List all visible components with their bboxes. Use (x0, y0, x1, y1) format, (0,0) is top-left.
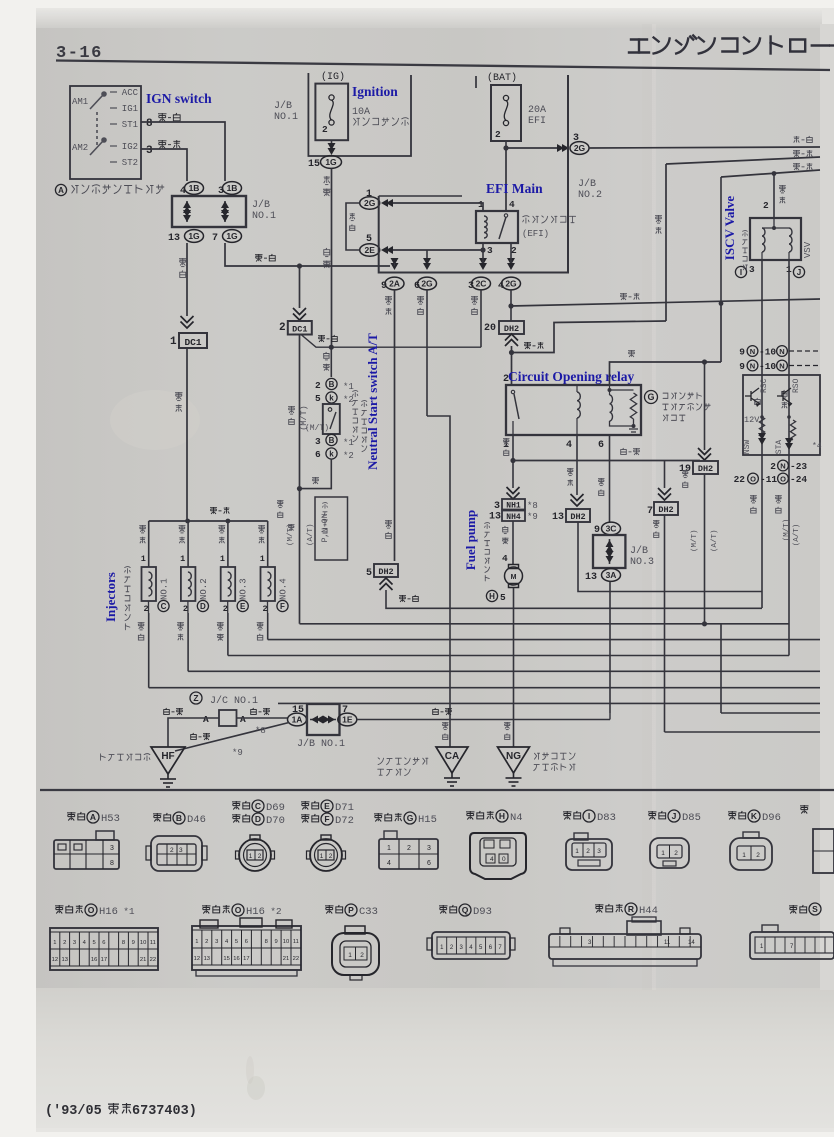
svg-text:5: 5 (92, 940, 95, 946)
svg-text:B: B (329, 380, 335, 389)
svg-text:2G: 2G (364, 198, 376, 208)
svg-text:3: 3 (597, 848, 601, 855)
arrow into DC1 pin1 (181, 316, 194, 328)
connector J D85 (648, 811, 657, 820)
svg-text:NO.1: NO.1 (252, 211, 276, 222)
svg-text:2: 2 (329, 853, 333, 860)
connector partial right edge row1 (800, 805, 809, 814)
svg-text:(IG): (IG) (321, 71, 345, 83)
svg-text:J/B: J/B (252, 199, 270, 211)
svg-text:NSW: NSW (743, 440, 752, 455)
connector 2C-3 (472, 277, 491, 290)
connector P C33 (325, 905, 334, 914)
CO relay pin1 down (512, 435, 514, 461)
connector DH2-19 (693, 461, 718, 474)
svg-text:IGN switch: IGN switch (146, 91, 212, 106)
svg-text:3: 3 (179, 847, 183, 854)
wire HF to block A (168, 718, 219, 747)
arrow into 2A-9 (391, 258, 399, 270)
wire injector 3 down (227, 613, 229, 656)
svg-text:2: 2 (258, 853, 262, 860)
svg-text:*2: *2 (343, 395, 354, 405)
connector E/F round (307, 835, 346, 871)
svg-text:1: 1 (180, 554, 185, 564)
arrow into 2C-3 (479, 258, 487, 270)
NSW bottom wire black (300, 459, 332, 489)
svg-text:1E: 1E (342, 715, 353, 725)
svg-text:P,N-ON: P,N-ON (321, 513, 330, 542)
svg-text:-11: -11 (760, 474, 777, 485)
connector R H44 (595, 904, 604, 913)
wire to DC1 pin2 (299, 266, 301, 308)
svg-text:HF: HF (161, 751, 174, 762)
connector H id (486, 590, 497, 601)
svg-text:2E: 2E (364, 245, 375, 255)
svg-text:11: 11 (150, 940, 156, 946)
ground NG luggage room (498, 747, 530, 773)
junction black-red line (508, 303, 513, 308)
svg-text:(M/T): (M/T) (783, 519, 791, 542)
svg-text:5: 5 (235, 939, 238, 945)
J/B No.3 box (593, 535, 625, 568)
wire DC1-2 long down black-white M/T (299, 335, 301, 624)
svg-text:13: 13 (489, 512, 501, 523)
svg-text:B: B (329, 436, 335, 445)
wire to injector 2 (187, 521, 189, 567)
neutral start switch M/T (323, 404, 340, 434)
svg-text:*1: *1 (123, 906, 135, 917)
svg-text:1: 1 (195, 939, 198, 945)
svg-text:N: N (780, 461, 785, 470)
svg-text:A: A (240, 714, 246, 725)
svg-text:1: 1 (575, 848, 579, 855)
connector A H53 (67, 812, 76, 821)
wire to injector 4 (267, 521, 269, 567)
connector 2G-4 (502, 277, 521, 290)
wire red-white to right (589, 147, 821, 148)
svg-text:R: R (628, 904, 634, 914)
connector DH2-7 (654, 502, 678, 515)
svg-text:DH2: DH2 (698, 464, 713, 474)
svg-text:N: N (779, 347, 784, 356)
svg-text:13: 13 (61, 957, 67, 963)
svg-text:N: N (750, 361, 755, 370)
svg-text:H16: H16 (99, 906, 118, 918)
svg-text:(EFI): (EFI) (522, 229, 549, 239)
connector 1G left (185, 230, 204, 243)
svg-text:12: 12 (194, 956, 200, 962)
separator line (40, 789, 834, 791)
svg-text:F: F (280, 602, 285, 611)
J/B No.2 bracket (379, 75, 568, 273)
svg-text:2: 2 (360, 952, 364, 959)
injector No.3 (221, 567, 236, 601)
connector O H16 *1 (55, 905, 64, 914)
wire bundle 5 injector2 (188, 670, 820, 672)
svg-text:ST1: ST1 (122, 120, 138, 130)
shift position P,N-ON box (315, 497, 348, 560)
svg-text:(A/T): (A/T) (711, 529, 719, 552)
svg-text:ST2: ST2 (122, 158, 138, 168)
connector J id (793, 266, 804, 277)
svg-text:3: 3 (494, 501, 500, 512)
svg-text:15: 15 (308, 159, 320, 170)
svg-text:RSC: RSC (760, 378, 769, 393)
ground CA left fender apron (436, 747, 468, 773)
wire down to junction (720, 177, 722, 303)
svg-text:IG1: IG1 (122, 104, 138, 114)
svg-text:A: A (90, 812, 96, 822)
svg-text:STA: STA (775, 440, 784, 455)
svg-text:AM1: AM1 (72, 97, 88, 107)
junction bus inj3 (226, 519, 231, 524)
feed stub (475, 76, 477, 88)
svg-text:20A: 20A (528, 105, 546, 116)
junction black-red jog (509, 350, 514, 355)
junction block A (219, 710, 237, 726)
svg-text:1: 1 (661, 850, 665, 857)
connector B D46 (153, 813, 162, 822)
wire below DH2-19 (704, 474, 706, 624)
svg-text:H: H (489, 592, 495, 601)
svg-text:3: 3 (215, 939, 218, 945)
wire ST1 to 1B (141, 122, 225, 181)
svg-text:17: 17 (243, 956, 249, 962)
wire to NH1 (512, 461, 514, 489)
svg-text:1A: 1A (292, 715, 303, 725)
connector E D71 / F D72 labels (301, 801, 310, 810)
svg-text:6: 6 (315, 449, 321, 460)
junction injector bus (185, 519, 190, 524)
connector 3A (602, 569, 621, 582)
svg-text:3: 3 (427, 845, 431, 852)
svg-text:Neutral Start switch A/T: Neutral Start switch A/T (365, 333, 380, 470)
svg-text:5: 5 (315, 393, 321, 404)
svg-text:D: D (200, 602, 206, 611)
svg-text:2: 2 (205, 939, 208, 945)
svg-text:17: 17 (101, 957, 107, 963)
wire black-white 1G-7 to J/B No.2 (225, 243, 390, 266)
svg-text:10: 10 (283, 939, 289, 945)
arrow into 2G-1 (381, 199, 393, 207)
svg-text:20: 20 (484, 323, 496, 334)
svg-text:2G: 2G (505, 279, 517, 289)
svg-text:2: 2 (674, 850, 678, 857)
wire bundle 7 (278, 702, 820, 704)
svg-text:8: 8 (122, 940, 125, 946)
svg-text:(BAT): (BAT) (487, 72, 517, 84)
svg-text:VSV: VSV (803, 241, 813, 258)
svg-text:C: C (255, 801, 261, 811)
junction ISCV supply (772, 171, 777, 176)
svg-text:J/B: J/B (578, 178, 596, 190)
svg-text:NG: NG (506, 751, 521, 762)
svg-text:I: I (588, 811, 590, 821)
connector 3C (602, 522, 621, 535)
svg-text:1: 1 (387, 845, 391, 852)
svg-text:2: 2 (756, 852, 760, 859)
wire black-red third (721, 170, 820, 177)
svg-text:Injectors: Injectors (103, 572, 118, 622)
wire label black-white(M/T) black(A/T) (277, 500, 284, 507)
svg-text:B: B (176, 813, 182, 823)
svg-text:3: 3 (110, 845, 114, 852)
svg-text:2C: 2C (476, 279, 487, 289)
svg-text:DH2: DH2 (378, 567, 393, 577)
svg-text:K: K (751, 811, 758, 821)
wire right vertical jog (720, 624, 722, 713)
svg-text:D46: D46 (187, 814, 206, 826)
wire to DH2-7 (664, 461, 666, 489)
svg-text:7: 7 (647, 506, 653, 517)
svg-text:D83: D83 (597, 812, 616, 824)
svg-text:9: 9 (132, 940, 135, 946)
branch to 2G-6 (426, 250, 428, 264)
svg-text:15: 15 (223, 956, 229, 962)
fuse Ignition 10A (315, 84, 348, 141)
wire bundle 4 injector3 (228, 655, 789, 657)
wire white-green ISCV-1 down (788, 260, 790, 656)
junction fuse EFI (503, 145, 508, 150)
svg-text:2: 2 (315, 380, 321, 391)
connector B pin2 (326, 378, 337, 389)
wire black-red long right (511, 299, 820, 306)
svg-text:(A/T): (A/T) (793, 524, 801, 547)
svg-text:(M/T): (M/T) (299, 405, 309, 431)
connector DC1-2 box (288, 321, 312, 335)
svg-text:2: 2 (170, 847, 174, 854)
svg-text:1: 1 (260, 554, 265, 564)
svg-text:9: 9 (739, 361, 745, 372)
svg-text:I: I (740, 268, 742, 277)
svg-text:1B: 1B (227, 183, 238, 193)
J/B No.2 top edge (379, 195, 462, 197)
wire down to DH2-19 (704, 362, 706, 450)
J/B No.1 box left (172, 196, 246, 227)
svg-text:EFI: EFI (528, 116, 546, 127)
svg-text:8: 8 (146, 118, 153, 130)
svg-text:J/B: J/B (630, 545, 648, 557)
svg-text:J/B NO.1: J/B NO.1 (297, 738, 345, 750)
svg-text:1G: 1G (226, 231, 238, 241)
junction fuse wire (329, 345, 334, 350)
wire below DH2-7 (664, 515, 666, 732)
svg-text:2: 2 (279, 322, 286, 334)
svg-text:6: 6 (245, 939, 248, 945)
svg-text:1G: 1G (325, 157, 337, 167)
svg-text:9: 9 (274, 939, 277, 945)
svg-text:(M/T): (M/T) (691, 529, 699, 552)
injector supply bus (149, 520, 268, 522)
wire bottom right 2 (665, 731, 821, 733)
connector C/D round (236, 835, 275, 871)
wire bundle 3 injector4 (268, 639, 820, 641)
svg-text:22: 22 (150, 957, 156, 963)
svg-text:(A/T): (A/T) (307, 523, 315, 546)
wire bottom right 1 (721, 712, 820, 714)
svg-text:A: A (58, 186, 64, 195)
svg-text:NO.3: NO.3 (239, 578, 249, 600)
connector k pin5 (326, 392, 337, 403)
svg-text:C: C (161, 602, 167, 611)
wire black-red down to CO relay feed (665, 164, 667, 321)
injector No.1 (142, 567, 157, 601)
svg-text:2G: 2G (574, 143, 586, 153)
svg-text:k: k (329, 393, 334, 402)
svg-text:RSO: RSO (792, 378, 801, 393)
svg-text:*9: *9 (232, 748, 243, 758)
svg-text:1: 1 (249, 853, 253, 860)
svg-text:J: J (672, 811, 677, 821)
svg-text:E: E (240, 602, 246, 611)
svg-text:D85: D85 (682, 812, 701, 824)
wire fuel pump to ground NG (513, 588, 515, 747)
wire DC1 down black-orange (186, 348, 188, 521)
arrow into 2G-6 (423, 258, 431, 270)
svg-text:1: 1 (320, 853, 324, 860)
ground HF right cowl side (151, 747, 185, 774)
svg-text:*2: *2 (270, 906, 282, 917)
wire 2G-4 down to DH2-20 (510, 290, 512, 321)
junction to DC1-2 (297, 263, 302, 268)
svg-text:k: k (329, 449, 334, 458)
svg-text:21: 21 (140, 957, 146, 963)
svg-text:14: 14 (688, 940, 695, 946)
svg-text:Z: Z (193, 693, 198, 703)
junction ISCV branch (719, 301, 724, 306)
svg-text:NO.3: NO.3 (630, 557, 654, 568)
svg-text:5: 5 (500, 592, 506, 603)
junction pin3 (480, 247, 485, 252)
wire pin3 down to 2C (482, 250, 484, 263)
connector 1A (288, 713, 307, 726)
svg-text:2G: 2G (421, 279, 433, 289)
svg-text:H16: H16 (246, 906, 265, 918)
svg-text:E: E (324, 801, 330, 811)
junction DH2-19 wire (702, 621, 707, 626)
svg-text:16: 16 (91, 957, 97, 963)
svg-text:Q: Q (462, 905, 469, 915)
connector O H16 *2 (202, 905, 211, 914)
svg-text:D71: D71 (335, 802, 354, 814)
svg-text:Circuit Opening relay: Circuit Opening relay (508, 369, 635, 384)
junction pin1 (510, 458, 515, 463)
svg-text:13: 13 (204, 956, 210, 962)
connector 2G-6 (418, 277, 437, 290)
wire 1E to 3A white-black (357, 719, 611, 721)
svg-text:13: 13 (168, 233, 180, 244)
wire injector 4 down (267, 613, 269, 640)
svg-text:2: 2 (407, 845, 411, 852)
svg-text:22: 22 (734, 474, 746, 485)
J/B No.1 internal arrows (186, 201, 188, 222)
svg-text:DH2: DH2 (570, 512, 585, 522)
wire to NSW (330, 347, 332, 377)
junction to DH2-19 (702, 359, 707, 364)
svg-text:1: 1 (742, 852, 746, 859)
svg-text:S: S (812, 904, 818, 914)
svg-text:1B: 1B (189, 183, 200, 193)
wire 1G-13 down black-white (186, 243, 188, 316)
svg-text:D72: D72 (335, 815, 354, 827)
relay id G (645, 391, 658, 404)
svg-text:('93/05: ('93/05 (45, 1104, 102, 1119)
wire diagonal to HF (175, 723, 289, 752)
svg-text:10: 10 (140, 940, 146, 946)
CO relay pin4 down (576, 435, 578, 495)
svg-text:D93: D93 (473, 906, 492, 918)
arrow into DH2-5 (380, 578, 393, 590)
svg-text:4: 4 (502, 553, 508, 564)
arrow into 2E-5 (381, 246, 393, 254)
wire jog to ground CA (427, 416, 450, 747)
svg-text:1: 1 (53, 940, 56, 946)
svg-text:-10: -10 (759, 347, 776, 358)
svg-text:AM2: AM2 (72, 143, 88, 153)
wire bundle 2 (300, 623, 790, 625)
svg-text:O: O (750, 474, 756, 483)
svg-text:H15: H15 (418, 814, 437, 826)
wire black-red second (666, 157, 820, 164)
fuel pump M (505, 565, 523, 588)
svg-text:-24: -24 (790, 474, 807, 485)
wire 2C-3 down (480, 290, 482, 347)
fuse EFI output (505, 141, 507, 148)
wire to fuel pump (512, 521, 514, 565)
IGN switch levers (90, 92, 106, 155)
svg-text:4: 4 (387, 860, 391, 867)
svg-text:1G: 1G (188, 231, 200, 241)
svg-text:8: 8 (110, 860, 114, 867)
svg-text:*1: *1 (343, 382, 354, 392)
connector DH2-20 (499, 321, 524, 334)
svg-text:3: 3 (749, 264, 755, 275)
wire black relay coil top (610, 362, 722, 385)
connector 1B right (223, 182, 242, 195)
wire relay pin2 up (511, 346, 513, 385)
wire black-red to ISCV branch (512, 321, 667, 353)
svg-text:2: 2 (63, 940, 66, 946)
connector K D96 (728, 811, 737, 820)
relay pin3 stub (482, 243, 484, 250)
svg-text:4: 4 (490, 856, 494, 863)
wire DC1-2 branch diagonal (301, 335, 481, 348)
svg-text:3: 3 (487, 245, 493, 256)
svg-text:N4: N4 (510, 812, 523, 824)
svg-text:11: 11 (664, 940, 671, 946)
svg-text:3: 3 (146, 145, 153, 157)
svg-text:Fuel pump: Fuel pump (463, 510, 478, 570)
connector DH2-5 (374, 564, 398, 577)
svg-text:1: 1 (170, 336, 177, 348)
injector id E (237, 600, 248, 611)
svg-text:J: J (797, 268, 801, 277)
connector NH4 (502, 511, 525, 522)
svg-text:C33: C33 (359, 906, 378, 918)
ISC driver box RSC RSO (743, 375, 820, 455)
J/B No.1 box bottom (307, 704, 340, 735)
svg-text:4: 4 (509, 199, 515, 210)
svg-text:DC1: DC1 (292, 325, 307, 335)
svg-text:13: 13 (585, 572, 597, 583)
wire IG2 to 1B (141, 149, 187, 181)
svg-text:IG2: IG2 (122, 142, 138, 152)
wire bundle 6 injector1 (149, 687, 820, 689)
title rule (56, 61, 830, 71)
svg-text:-23: -23 (790, 461, 807, 472)
svg-text:M: M (511, 574, 517, 581)
svg-text:2: 2 (223, 604, 228, 614)
